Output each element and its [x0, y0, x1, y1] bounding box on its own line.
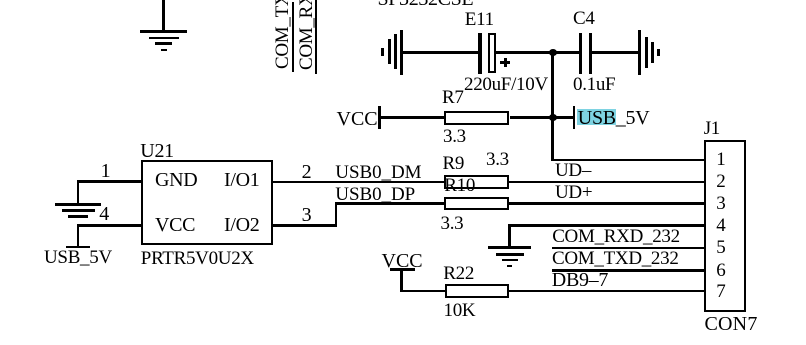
- wire: [552, 247, 704, 250]
- label PRTR5V0U2X: [141, 249, 254, 268]
- value 0.1uF: [573, 75, 615, 94]
- node COM_TXD_232: [552, 249, 679, 268]
- node USB0_DP: [335, 185, 415, 204]
- power VCC: [382, 251, 423, 271]
- wire: [551, 53, 554, 162]
- pin 7: [716, 282, 725, 301]
- pin 6: [716, 261, 725, 280]
- node COM_TX: [273, 0, 292, 69]
- wire: [403, 51, 480, 54]
- wire: [77, 224, 141, 227]
- power VCC: [337, 109, 378, 129]
- pin name GND: [155, 170, 197, 190]
- node UD+: [555, 183, 592, 202]
- label R7: [442, 88, 464, 107]
- pin 4: [99, 204, 109, 224]
- value 3.3: [441, 214, 464, 233]
- pin 3: [302, 205, 312, 225]
- wire: [400, 268, 403, 291]
- node DB9-7: [552, 270, 608, 290]
- pin name I/O2: [224, 215, 259, 235]
- power USB_5V: [573, 106, 576, 130]
- label U21: [140, 141, 174, 161]
- label R9: [443, 154, 465, 173]
- node junction: [549, 114, 557, 122]
- label R10: [444, 176, 475, 195]
- wire: [552, 116, 573, 119]
- value 3.3: [486, 150, 509, 169]
- wire: [508, 224, 704, 227]
- pin 1: [716, 150, 725, 169]
- pin name I/O1: [224, 170, 259, 190]
- wire: [552, 269, 704, 272]
- wire: [509, 290, 705, 293]
- capacitor E11: [478, 33, 481, 74]
- wire: [592, 51, 638, 54]
- wire: [273, 181, 704, 184]
- value 220uF/10V: [464, 75, 548, 94]
- ground: [638, 30, 641, 75]
- IC label SP3232CSE: [378, 0, 474, 9]
- resistor R22: [445, 284, 509, 298]
- ground: [162, 0, 165, 32]
- resistor R9: [444, 175, 509, 189]
- ground: [488, 246, 531, 249]
- power USB_5V: [66, 246, 90, 249]
- pin name VCC: [155, 215, 195, 235]
- pin 3: [716, 194, 725, 213]
- wire: [510, 116, 553, 119]
- wire: [315, 0, 318, 74]
- label E11: [465, 10, 494, 29]
- connector J1: [704, 140, 747, 312]
- pin 2: [716, 172, 725, 191]
- polarity + mark: [500, 61, 510, 64]
- wire: [496, 51, 553, 54]
- wire: [77, 180, 141, 183]
- resistor R10: [444, 197, 509, 211]
- node COM_RXD_232: [552, 227, 680, 246]
- wire: [553, 51, 579, 54]
- node USB0_DM: [335, 163, 421, 182]
- wire: [292, 2, 295, 72]
- node junction: [549, 49, 557, 57]
- value 3.3: [443, 127, 466, 146]
- pin 2: [302, 162, 312, 182]
- capacitor C4: [579, 33, 583, 74]
- node COM_RX: [297, 0, 316, 70]
- pin 1: [101, 161, 111, 181]
- pin 4: [716, 216, 725, 235]
- pin 5: [716, 238, 725, 257]
- ground: [55, 203, 101, 206]
- wire: [381, 116, 445, 119]
- resistor R7: [444, 111, 509, 125]
- wire: [552, 159, 704, 162]
- label J1: [704, 119, 720, 138]
- label R22: [443, 264, 474, 283]
- node UD-: [555, 161, 591, 180]
- label C4: [573, 9, 595, 28]
- label CON7: [705, 314, 758, 334]
- wire: [273, 224, 337, 227]
- ground: [400, 30, 403, 76]
- value 10K: [444, 301, 476, 320]
- IC U21 PRTR5V0U2X: [141, 160, 273, 245]
